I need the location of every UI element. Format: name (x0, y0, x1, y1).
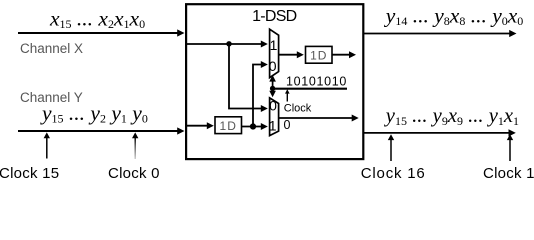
svg-text:1-DSD: 1-DSD (252, 8, 296, 25)
svg-text:Clock 16: Clock 16 (361, 165, 426, 180)
svg-text:Channel X: Channel X (20, 41, 83, 56)
svg-text:10101010: 10101010 (286, 75, 347, 89)
svg-text:0: 0 (284, 118, 291, 132)
svg-text:1D: 1D (310, 49, 327, 63)
svg-text:0: 0 (269, 97, 277, 113)
svg-text:Clock 15: Clock 15 (0, 165, 59, 180)
svg-text:Clock 1: Clock 1 (483, 165, 534, 180)
svg-text:Clock: Clock (284, 102, 312, 114)
svg-text:1: 1 (270, 37, 278, 53)
svg-text:x15 ... x2x1x0: x15 ... x2x1x0 (49, 6, 145, 31)
svg-text:y14 ... y8x8 ... y0x0: y14 ... y8x8 ... y0x0 (384, 3, 523, 28)
svg-text:1: 1 (269, 117, 277, 133)
svg-text:1D: 1D (220, 119, 237, 133)
svg-text:y15 ... y9x9 ... y1x1: y15 ... y9x9 ... y1x1 (384, 105, 519, 128)
svg-text:0: 0 (269, 58, 277, 74)
svg-text:Clock 0: Clock 0 (108, 165, 160, 180)
